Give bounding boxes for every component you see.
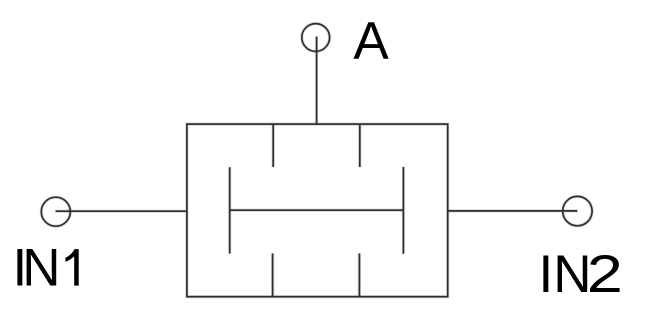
svg-text:IN: IN <box>13 239 61 298</box>
svg-text:2: 2 <box>587 244 623 304</box>
svg-text:IN: IN <box>539 245 592 304</box>
svg-text:A: A <box>353 12 389 71</box>
